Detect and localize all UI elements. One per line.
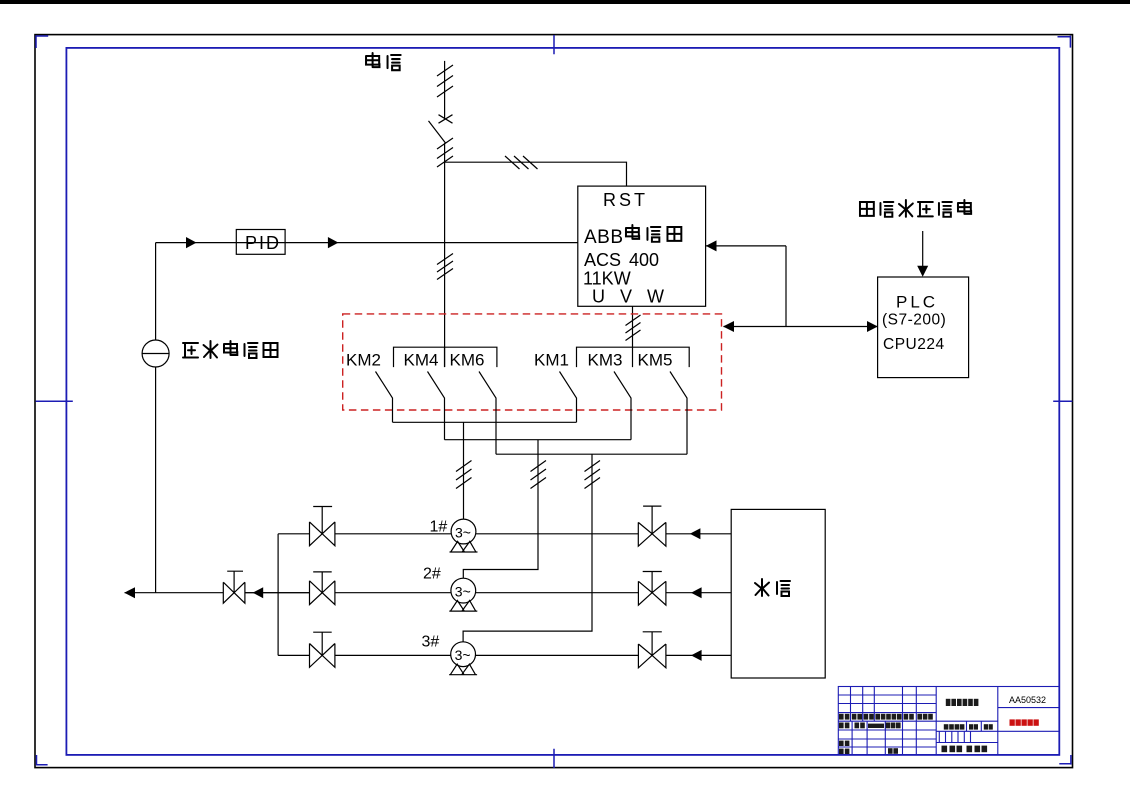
PID controller box (236, 230, 285, 255)
svg-text:2#: 2# (423, 566, 441, 583)
water tank box (731, 509, 825, 678)
svg-text:ACS: ACS (584, 250, 621, 270)
inverter U1 box (578, 186, 706, 306)
arrow into PLC top (917, 266, 928, 277)
svg-text:400: 400 (629, 250, 659, 270)
KM6 switch blade (479, 372, 496, 455)
valve V2 (310, 572, 335, 605)
pump motor M1 (451, 519, 476, 544)
breaker blade (429, 121, 446, 143)
wire: drop to pump 3 (463, 454, 592, 642)
label 水 (755, 579, 769, 596)
svg-text:3~: 3~ (455, 525, 471, 541)
label 变 (224, 341, 237, 355)
arrow into contactor group (723, 321, 734, 332)
pump motor M3 (451, 642, 476, 667)
wire: PLC to contactor group (706, 246, 878, 327)
slash marks on drop 1 (456, 461, 472, 489)
label 频 (647, 227, 660, 242)
outlet pipe wire (125, 592, 310, 594)
KM4 switch blade (428, 372, 445, 440)
svg-text:CPU224: CPU224 (883, 336, 945, 353)
svg-text:KM3: KM3 (588, 351, 623, 370)
arrow after PID (328, 237, 339, 248)
svg-text:KM6: KM6 (450, 351, 485, 370)
label 压 (183, 343, 198, 358)
slash marks on inverter output (626, 315, 641, 341)
bus B wire (445, 439, 632, 441)
svg-text:KM1: KM1 (534, 351, 569, 370)
label 池 (777, 581, 790, 596)
svg-text:1#: 1# (430, 519, 448, 536)
label 器 (667, 227, 681, 241)
PLC U2 box (878, 277, 969, 378)
svg-text:KM5: KM5 (638, 351, 673, 370)
arrow into pump 3 (691, 650, 702, 661)
wire: transmitter riser (155, 243, 157, 593)
arrow into PLC left (867, 321, 878, 332)
svg-text:KM2: KM2 (346, 351, 381, 370)
svg-text:(S7-200): (S7-200) (882, 312, 946, 329)
svg-text:3~: 3~ (455, 647, 471, 663)
KM1 switch blade (560, 372, 577, 423)
svg-text:ABB: ABB (584, 227, 624, 248)
svg-text:3#: 3# (422, 634, 440, 651)
pump motor M2 (451, 578, 476, 603)
svg-text:PID: PID (245, 233, 281, 253)
svg-text:KM4: KM4 (404, 351, 439, 370)
breaker contact cross (439, 115, 453, 124)
pipe row 1 wire (278, 533, 731, 535)
bus A wire (393, 421, 577, 423)
pipe row 2 wire (245, 592, 731, 594)
label 送 (245, 343, 258, 358)
svg-text:PLC: PLC (896, 293, 938, 312)
label 器 (264, 343, 278, 357)
KM3 switch blade (614, 372, 631, 440)
bracket over KM4/KM6 (394, 347, 497, 367)
wire: control signal into PLC (922, 231, 924, 266)
wire: power feed vertical lower (444, 143, 446, 162)
power label 电 (366, 53, 379, 67)
slash marks below breaker (437, 138, 453, 167)
wire: main vertical to KM4/KM6 (444, 162, 446, 367)
slash marks on main vertical (437, 254, 453, 280)
arrow into pump 1 (690, 528, 701, 539)
arrow into PID (186, 237, 197, 248)
svg-text:11KW: 11KW (583, 269, 631, 289)
wire: inverter output (632, 306, 634, 347)
KM2 switch blade (376, 372, 393, 423)
wire: drop to pump 1 (463, 422, 465, 519)
arrow on outlet pipe (253, 587, 264, 598)
outlet valve V0 (223, 571, 245, 603)
wire: power feed vertical upper (444, 61, 446, 119)
wire: PID setpoint line (156, 242, 578, 244)
outlet arrow (124, 587, 135, 598)
bracket over KM3/KM5 (577, 347, 690, 367)
suction valve V5 (638, 572, 666, 606)
contactor group dashed box (343, 314, 722, 410)
slash marks on inverter feed (505, 156, 538, 169)
valve V1 (310, 507, 335, 546)
label 力 (204, 341, 218, 358)
power label 源 (388, 55, 401, 70)
KM5 switch blade (670, 372, 687, 455)
label 操作控制信号 (860, 202, 874, 216)
valve V3 (310, 632, 335, 667)
pressure transmitter P1 (142, 340, 169, 367)
svg-text:RST: RST (603, 190, 648, 210)
arrow into pump 2 (691, 587, 702, 598)
suction valve V4 (638, 506, 666, 546)
arrow into inverter right (706, 240, 717, 251)
wire: branch to inverter input (445, 162, 627, 186)
slash marks on power feed (437, 65, 453, 97)
slash marks on drop 2 (531, 461, 547, 489)
wire: drop to pump 2 (463, 440, 538, 579)
pipe row 3 wire (278, 654, 731, 656)
svg-text:AA50532: AA50532 (1009, 695, 1046, 705)
bus C wire (496, 453, 687, 455)
page top rule (0, 0, 1130, 4)
slash marks on drop 3 (585, 461, 601, 489)
manifold header wire (277, 534, 279, 656)
label 变 (626, 225, 639, 239)
svg-text:U V W: U V W (592, 287, 669, 307)
svg-text:3~: 3~ (455, 584, 471, 600)
suction valve V6 (638, 632, 666, 668)
